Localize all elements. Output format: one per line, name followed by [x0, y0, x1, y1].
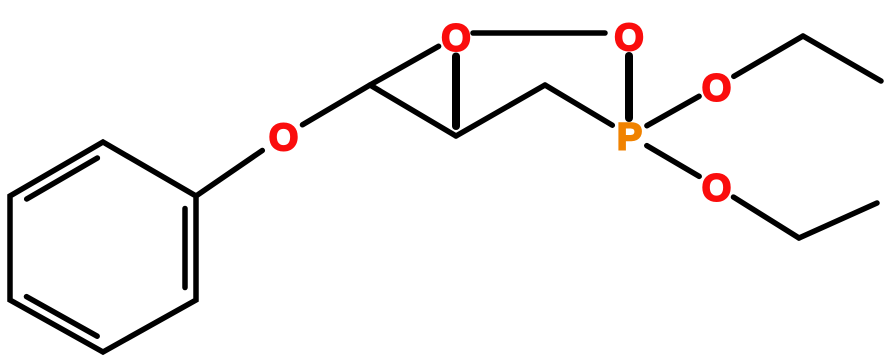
- wire C7 to C8 (clipped at edge): [799, 203, 877, 238]
- wire O1 down vertical: [452, 57, 460, 127]
- svg-text:P: P: [617, 116, 642, 158]
- svg-text:O: O: [441, 17, 471, 59]
- wire ether O to C1: [303, 85, 371, 125]
- wire horizontal O1-O2: [473, 30, 605, 36]
- benzene ring outer hexagon: [10, 142, 196, 352]
- wire O4 to C7: [734, 197, 800, 238]
- svg-text:O: O: [269, 117, 299, 159]
- wire C1 to O1: [370, 46, 439, 85]
- wire C3 to P: [545, 85, 612, 125]
- svg-text:O: O: [614, 17, 644, 59]
- wire P to O4: [647, 146, 699, 177]
- wire C2 to C3: [456, 85, 545, 136]
- ring inner double bond (apex-UL): [27, 158, 98, 199]
- wire ring to ether O: [196, 151, 262, 197]
- wire C1 to C2: [370, 85, 456, 136]
- wire C5 to C6 (clipped at edge): [803, 36, 881, 81]
- svg-text:O: O: [702, 167, 732, 209]
- ring inner double bond (UR-LR): [182, 209, 188, 288]
- wire P to O3: [647, 96, 699, 125]
- wire O2 down to P: [625, 56, 633, 118]
- ring inner double bond (LL-bottom): [27, 297, 98, 337]
- svg-text:O: O: [702, 67, 732, 109]
- wire O3 to C5: [734, 36, 803, 76]
